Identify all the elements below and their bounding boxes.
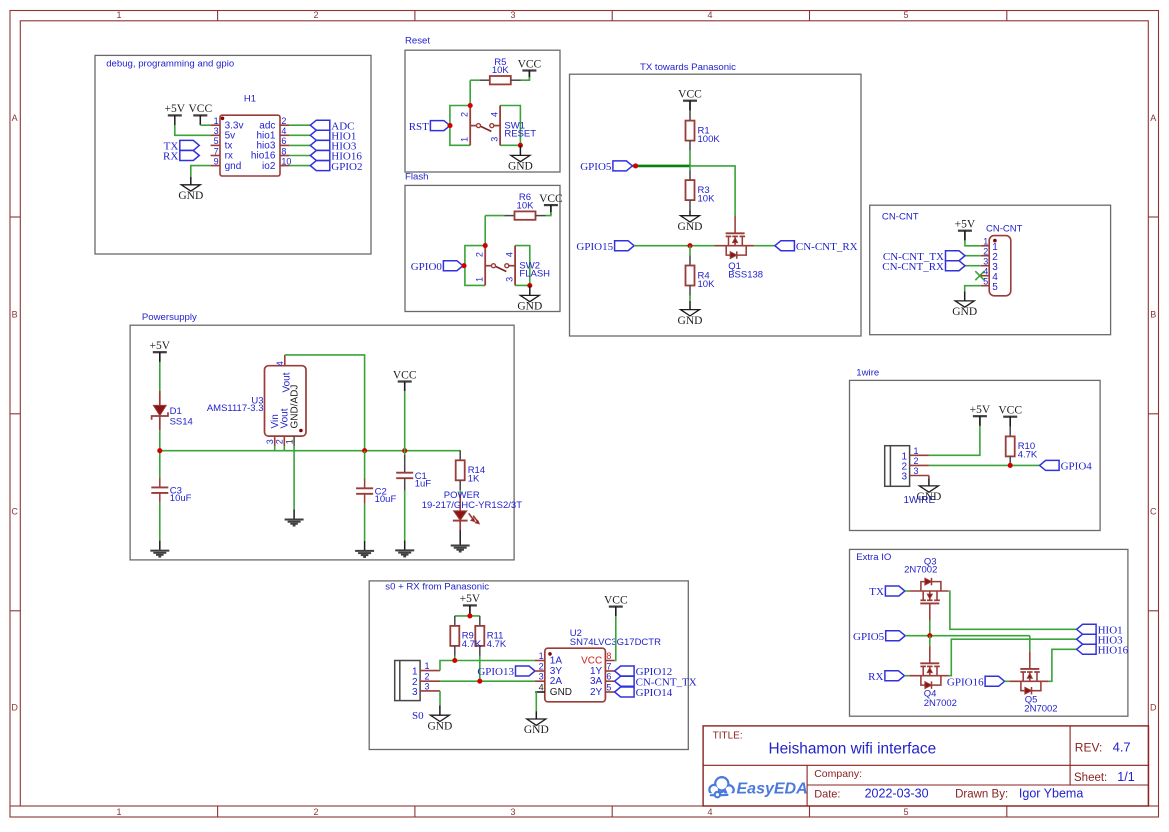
svg-text:5: 5 <box>983 276 988 286</box>
svg-text:4: 4 <box>983 266 988 276</box>
svg-text:gnd: gnd <box>225 161 242 172</box>
svg-text:19-217/GHC-YR1S2/3T: 19-217/GHC-YR1S2/3T <box>422 500 523 511</box>
svg-text:A: A <box>12 113 18 123</box>
svg-text:VCC: VCC <box>678 89 702 101</box>
svg-text:3: 3 <box>214 126 219 136</box>
svg-text:GPIO16: GPIO16 <box>947 677 984 689</box>
svg-text:RX: RX <box>868 671 883 683</box>
svg-text:1/1: 1/1 <box>1117 770 1134 784</box>
svg-text:Igor Ybema: Igor Ybema <box>1019 787 1083 801</box>
svg-text:GPIO14: GPIO14 <box>636 687 673 699</box>
svg-text:1: 1 <box>983 237 988 247</box>
svg-text:10uF: 10uF <box>375 494 397 505</box>
svg-text:3: 3 <box>425 681 430 691</box>
svg-text:Drawn By:: Drawn By: <box>955 789 1008 801</box>
svg-text:CN-CNT: CN-CNT <box>882 212 919 223</box>
svg-text:GPIO0: GPIO0 <box>411 261 443 273</box>
svg-text:VCC: VCC <box>604 594 628 606</box>
svg-text:5: 5 <box>992 282 998 293</box>
svg-text:C: C <box>1150 507 1157 517</box>
svg-text:4: 4 <box>490 112 500 117</box>
svg-text:5: 5 <box>214 136 219 146</box>
svg-text:5: 5 <box>606 683 611 693</box>
svg-text:2: 2 <box>281 116 286 126</box>
svg-text:100K: 100K <box>698 134 721 145</box>
svg-text:SS14: SS14 <box>170 417 193 428</box>
svg-text:1: 1 <box>116 807 121 817</box>
svg-text:REV:: REV: <box>1075 741 1103 755</box>
svg-text:8: 8 <box>606 651 611 661</box>
svg-text:+5V: +5V <box>165 103 186 115</box>
svg-text:4.7: 4.7 <box>1113 740 1131 755</box>
svg-text:+5V: +5V <box>460 593 481 605</box>
svg-text:2: 2 <box>539 662 544 672</box>
svg-text:GPIO2: GPIO2 <box>331 161 362 173</box>
svg-text:CN-CNT_RX: CN-CNT_RX <box>796 241 858 253</box>
svg-text:s0 + RX from Panasonic: s0 + RX from Panasonic <box>385 582 489 593</box>
svg-text:2N7002: 2N7002 <box>1024 703 1057 714</box>
svg-text:Reset: Reset <box>405 36 430 47</box>
svg-text:GPIO5: GPIO5 <box>580 161 612 173</box>
svg-text:GND: GND <box>952 306 977 318</box>
svg-text:CN-CNT: CN-CNT <box>986 224 1023 235</box>
svg-text:10uF: 10uF <box>170 493 192 504</box>
svg-text:Extra IO: Extra IO <box>856 552 891 563</box>
svg-text:3: 3 <box>510 807 515 817</box>
svg-text:GND: GND <box>678 315 703 327</box>
svg-text:Company:: Company: <box>814 768 862 780</box>
svg-text:HIO16: HIO16 <box>1098 645 1129 657</box>
svg-text:CN-CNT_RX: CN-CNT_RX <box>882 261 944 273</box>
svg-text:VCC: VCC <box>581 655 602 666</box>
svg-text:B: B <box>1150 310 1156 320</box>
svg-text:S0: S0 <box>412 710 424 722</box>
svg-text:Heishamon wifi interface: Heishamon wifi interface <box>769 741 937 758</box>
svg-text:7: 7 <box>606 662 611 672</box>
svg-text:C: C <box>11 507 18 517</box>
svg-text:2022-03-30: 2022-03-30 <box>865 787 929 801</box>
svg-text:VCC: VCC <box>539 193 563 205</box>
svg-text:3: 3 <box>505 277 515 282</box>
svg-text:6: 6 <box>606 672 611 682</box>
svg-text:debug, programming and gpio: debug, programming and gpio <box>106 59 234 70</box>
svg-text:2: 2 <box>425 672 430 682</box>
svg-text:2N7002: 2N7002 <box>924 698 957 709</box>
svg-text:GPIO15: GPIO15 <box>576 241 613 253</box>
svg-text:TITLE:: TITLE: <box>713 731 743 742</box>
svg-text:7: 7 <box>214 146 219 156</box>
svg-text:RX: RX <box>163 151 178 163</box>
svg-text:+5V: +5V <box>955 219 976 231</box>
svg-text:1: 1 <box>539 651 544 661</box>
svg-text:2: 2 <box>983 246 988 256</box>
svg-text:RST: RST <box>409 121 429 133</box>
svg-text:3: 3 <box>539 672 544 682</box>
svg-text:10K: 10K <box>517 200 535 211</box>
svg-text:4: 4 <box>707 807 712 817</box>
svg-text:4: 4 <box>539 683 544 693</box>
svg-text:1: 1 <box>425 661 430 671</box>
svg-text:GND: GND <box>427 720 452 732</box>
svg-text:5: 5 <box>903 807 908 817</box>
svg-text:H1: H1 <box>244 93 256 104</box>
svg-text:Sheet:: Sheet: <box>1074 772 1107 784</box>
svg-text:6: 6 <box>281 136 286 146</box>
svg-text:GND/ADJ: GND/ADJ <box>290 385 301 429</box>
svg-text:GND: GND <box>524 724 549 736</box>
svg-text:1: 1 <box>214 116 219 126</box>
svg-text:4.7K: 4.7K <box>487 639 507 650</box>
svg-text:2Y: 2Y <box>590 687 603 698</box>
svg-text:10: 10 <box>281 156 291 166</box>
svg-text:2: 2 <box>275 439 285 444</box>
svg-text:1: 1 <box>116 10 121 20</box>
svg-text:9: 9 <box>214 156 219 166</box>
svg-text:VCC: VCC <box>393 369 417 381</box>
svg-text:GND: GND <box>678 221 703 233</box>
svg-text:3: 3 <box>510 10 515 20</box>
svg-text:2: 2 <box>914 456 919 466</box>
svg-text:4: 4 <box>707 10 712 20</box>
svg-text:1K: 1K <box>468 474 480 485</box>
svg-text:1: 1 <box>914 446 919 456</box>
svg-text:1wire: 1wire <box>856 367 879 378</box>
svg-text:3: 3 <box>265 439 275 444</box>
svg-text:2: 2 <box>475 252 485 257</box>
svg-text:3: 3 <box>490 137 500 142</box>
svg-text:Powersupply: Powersupply <box>142 312 197 323</box>
svg-text:2: 2 <box>313 10 318 20</box>
svg-text:B: B <box>12 310 18 320</box>
svg-text:GND: GND <box>508 161 533 173</box>
svg-text:GND: GND <box>178 190 203 202</box>
svg-text:Flash: Flash <box>405 172 428 183</box>
svg-text:3: 3 <box>412 687 418 698</box>
svg-text:4: 4 <box>281 126 286 136</box>
svg-text:1: 1 <box>475 277 485 282</box>
svg-text:4.7K: 4.7K <box>462 639 482 650</box>
svg-text:1A: 1A <box>550 655 563 666</box>
svg-text:VCC: VCC <box>188 103 212 115</box>
svg-text:AMS1117-3.3: AMS1117-3.3 <box>207 403 264 414</box>
svg-text:3: 3 <box>914 466 919 476</box>
svg-text:VCC: VCC <box>998 405 1022 417</box>
svg-text:2: 2 <box>460 112 470 117</box>
svg-text:GND: GND <box>916 491 941 503</box>
svg-text:3A: 3A <box>590 676 603 687</box>
svg-text:4: 4 <box>505 252 515 257</box>
svg-text:GND: GND <box>517 301 542 313</box>
svg-text:Date:: Date: <box>814 789 840 801</box>
svg-text:+5V: +5V <box>970 404 991 416</box>
svg-text:io2: io2 <box>262 161 276 172</box>
svg-text:1: 1 <box>460 137 470 142</box>
svg-text:GND: GND <box>550 687 572 698</box>
svg-text:3: 3 <box>901 472 907 483</box>
svg-text:D: D <box>11 703 18 713</box>
svg-text:RESET: RESET <box>504 129 536 140</box>
svg-text:GPIO5: GPIO5 <box>853 631 885 643</box>
svg-text:10K: 10K <box>698 193 716 204</box>
svg-text:FLASH: FLASH <box>519 269 550 280</box>
svg-text:2A: 2A <box>550 676 563 687</box>
svg-text:TX towards Panasonic: TX towards Panasonic <box>640 62 736 73</box>
svg-text:5: 5 <box>903 10 908 20</box>
svg-text:TX: TX <box>869 586 884 598</box>
svg-text:VCC: VCC <box>518 58 542 70</box>
svg-text:GPIO13: GPIO13 <box>477 666 514 678</box>
svg-text:A: A <box>1150 113 1156 123</box>
svg-text:3: 3 <box>983 256 988 266</box>
svg-text:BSS138: BSS138 <box>728 270 763 281</box>
svg-text:D: D <box>1150 703 1157 713</box>
svg-text:10K: 10K <box>698 279 716 290</box>
svg-text:GPIO4: GPIO4 <box>1061 461 1093 473</box>
svg-text:2: 2 <box>313 807 318 817</box>
svg-text:D1: D1 <box>170 406 182 417</box>
svg-text:2N7002: 2N7002 <box>904 565 937 576</box>
svg-text:EasyEDA: EasyEDA <box>737 781 808 798</box>
svg-text:1: 1 <box>412 667 418 678</box>
svg-text:1: 1 <box>284 439 294 444</box>
svg-text:4.7K: 4.7K <box>1018 450 1038 461</box>
svg-text:4: 4 <box>275 361 285 366</box>
svg-text:10K: 10K <box>492 65 510 76</box>
svg-text:1uF: 1uF <box>415 479 432 490</box>
svg-text:8: 8 <box>281 146 286 156</box>
svg-text:+5V: +5V <box>150 340 171 352</box>
